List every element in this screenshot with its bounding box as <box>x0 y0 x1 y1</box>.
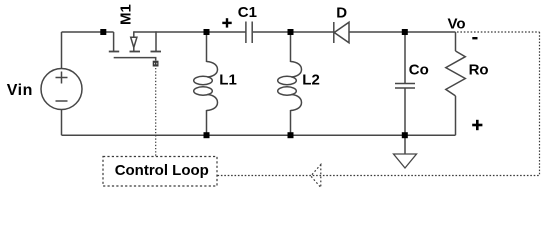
svg-text:Vo: Vo <box>448 16 466 33</box>
svg-text:L1: L1 <box>219 71 237 88</box>
svg-text:Vin: Vin <box>7 82 33 99</box>
svg-text:Ro: Ro <box>469 61 489 78</box>
svg-text:L2: L2 <box>302 71 320 88</box>
svg-text:M1: M1 <box>117 4 134 25</box>
svg-text:Co: Co <box>409 62 429 79</box>
svg-text:D: D <box>336 4 347 21</box>
svg-text:C1: C1 <box>238 4 257 21</box>
svg-text:Control Loop: Control Loop <box>115 162 209 179</box>
